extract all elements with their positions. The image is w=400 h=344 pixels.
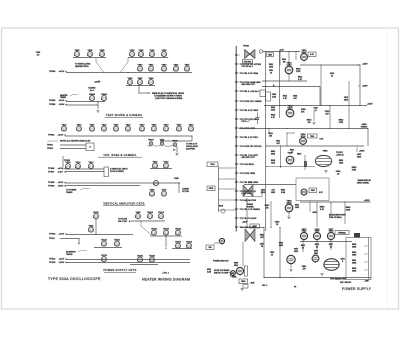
svg-text:4: 4 [135, 217, 136, 219]
svg-text:4: 4 [101, 245, 102, 247]
svg-text:TP911: TP911 [49, 238, 56, 240]
svg-text:4: 4 [149, 195, 150, 197]
svg-text:-150V: -150V [58, 186, 64, 188]
svg-text:FIG. 2: FIG. 2 [262, 285, 267, 287]
svg-text:TO HTRS OF CRT BD: TO HTRS OF CRT BD [240, 146, 262, 148]
svg-text:4: 4 [153, 184, 154, 186]
svg-text:(THE TWO CHASSIS A WIRE): (THE TWO CHASSIS A WIRE) [155, 97, 183, 100]
svg-text:THERMAL: THERMAL [338, 231, 346, 234]
svg-text:L802: L802 [268, 55, 272, 57]
svg-text:PWR: PWR [209, 188, 214, 190]
svg-text:4: 4 [93, 217, 94, 219]
svg-text:TEST SCOPE & CAMERA: TEST SCOPE & CAMERA [106, 113, 142, 117]
svg-text:HTR WDG: HTR WDG [244, 61, 252, 63]
svg-text:R815: R815 [261, 192, 265, 194]
svg-text:4: 4 [184, 70, 185, 72]
svg-text:+225V: +225V [362, 64, 368, 66]
svg-text:T801: T801 [310, 136, 314, 138]
svg-text:T601: T601 [248, 182, 252, 184]
svg-text:TP907: TP907 [48, 172, 55, 174]
svg-text:4: 4 [175, 234, 176, 236]
svg-text:+150V: +150V [367, 104, 373, 106]
svg-text:TP909: TP909 [48, 186, 55, 188]
svg-text:4: 4 [163, 234, 164, 236]
svg-text:TP912: TP912 [49, 259, 56, 261]
svg-text:ARE DC TO GND: ARE DC TO GND [214, 271, 229, 274]
svg-text:POWER SUPPLY CKTS: POWER SUPPLY CKTS [103, 268, 136, 272]
svg-text:+165V: +165V [362, 86, 368, 88]
svg-text:CRT, BASE & CAMERA: CRT, BASE & CAMERA [103, 153, 136, 157]
svg-text:4: 4 [74, 55, 75, 57]
svg-text:8: 8 [342, 261, 343, 263]
svg-text:.01: .01 [271, 254, 274, 256]
svg-text:4: 4 [125, 130, 126, 132]
svg-text:T802: T802 [311, 190, 315, 192]
svg-text:TP902: TP902 [47, 148, 54, 150]
svg-text:TP906: TP906 [48, 168, 55, 170]
svg-text:2.2M: 2.2M [207, 271, 211, 273]
svg-text:470: 470 [303, 268, 306, 270]
svg-text:220K: 220K [346, 209, 351, 211]
svg-text:CKT BD No 1: CKT BD No 1 [242, 66, 253, 68]
svg-text:TP910: TP910 [49, 234, 56, 236]
svg-text:4: 4 [148, 70, 149, 72]
svg-text:.047: .047 [293, 98, 297, 100]
svg-text:2X40: 2X40 [357, 156, 361, 158]
svg-text:FIG 3 JRB BY: FIG 3 JRB BY [340, 282, 352, 284]
svg-text:SW: SW [208, 247, 211, 249]
svg-text:4: 4 [101, 99, 102, 101]
svg-text:4: 4 [149, 261, 150, 263]
svg-text:POWER GND LUG: POWER GND LUG [213, 261, 229, 263]
svg-text:+ R89: + R89 [250, 283, 255, 285]
svg-text:TP901: TP901 [47, 145, 54, 147]
svg-text:V6017: V6017 [148, 140, 153, 142]
svg-text:+6.3V: +6.3V [59, 100, 65, 102]
svg-text:R890: R890 [241, 281, 245, 283]
svg-text:6.3: 6.3 [37, 54, 40, 56]
svg-text:+165V: +165V [359, 151, 365, 153]
svg-text:4: 4 [113, 130, 114, 132]
svg-text:4: 4 [137, 70, 138, 72]
svg-text:TRANS: TRANS [66, 191, 73, 194]
svg-text:TO FAN MOTOR: TO FAN MOTOR [240, 199, 257, 202]
svg-text:-150V: -150V [59, 262, 65, 264]
svg-text:T601: T601 [210, 164, 214, 166]
svg-text:TO PIN 4 OF V834: TO PIN 4 OF V834 [240, 73, 259, 75]
svg-text:2X20: 2X20 [344, 99, 348, 101]
svg-text:4: 4 [101, 260, 102, 262]
svg-text:V6063: V6063 [172, 141, 177, 143]
svg-text:4: 4 [138, 55, 139, 57]
svg-text:1M: 1M [308, 122, 311, 124]
svg-text:4: 4 [151, 234, 152, 236]
svg-text:4: 4 [163, 130, 164, 132]
svg-text:.01: .01 [270, 72, 273, 74]
svg-text:PINS OF REG.): PINS OF REG.) [329, 217, 342, 219]
svg-text:ADAPTER: ADAPTER [186, 147, 196, 150]
svg-text:TP908: TP908 [48, 182, 55, 184]
svg-text:4: 4 [173, 70, 174, 72]
svg-text:4: 4 [176, 130, 177, 132]
svg-text:TYPE 533A OSCILLOSCOPE: TYPE 533A OSCILLOSCOPE [48, 277, 101, 281]
svg-text:+100V: +100V [242, 222, 248, 224]
svg-text:4: 4 [89, 99, 90, 101]
svg-text:TO PIN 1 OF SW601: TO PIN 1 OF SW601 [240, 209, 261, 211]
svg-text:470K: 470K [352, 169, 357, 171]
svg-text:TP806: TP806 [49, 71, 56, 73]
svg-text:4: 4 [61, 130, 62, 132]
svg-text:4: 4 [161, 195, 162, 197]
svg-text:4: 4 [76, 130, 77, 132]
svg-text:TP904: TP904 [48, 135, 55, 137]
svg-text:.01: .01 [314, 110, 317, 112]
svg-text:B601: B601 [219, 206, 223, 208]
svg-text:PIN 2 + 7: PIN 2 + 7 [242, 121, 250, 123]
svg-text:+6.3V: +6.3V [58, 182, 64, 184]
svg-text:.047: .047 [276, 143, 280, 145]
svg-text:V618: V618 [160, 140, 164, 142]
svg-text:.047: .047 [325, 113, 329, 115]
svg-text:4: 4 [101, 130, 102, 132]
svg-text:TP804: TP804 [49, 100, 56, 102]
svg-text:.01: .01 [337, 173, 340, 175]
svg-text:TO 6.3V WDG: TO 6.3V WDG [240, 164, 254, 166]
svg-text:TO PILOT LIGHT: TO PILOT LIGHT [240, 218, 257, 220]
svg-text:4: 4 [114, 245, 115, 247]
svg-text:TO PIN 4 OF V863: TO PIN 4 OF V863 [240, 110, 259, 112]
svg-text:TO HTRS OF LOWER: TO HTRS OF LOWER [240, 101, 262, 103]
svg-text:4: 4 [161, 70, 162, 72]
svg-text:4: 4 [89, 130, 90, 132]
svg-text:R844: R844 [297, 154, 301, 156]
svg-text:4: 4 [88, 231, 89, 233]
svg-text:+6.3V: +6.3V [59, 259, 65, 261]
svg-text:5651: 5651 [234, 265, 238, 267]
svg-text:PLUG IN UNITS: PLUG IN UNITS [110, 171, 125, 173]
svg-text:4: 4 [149, 55, 150, 57]
svg-text:4: 4 [158, 217, 159, 219]
svg-text:4: 4 [137, 261, 138, 263]
svg-text:TO PIN 4 + BD No 1: TO PIN 4 + BD No 1 [240, 91, 260, 93]
svg-text:AND V872 CKT: AND V872 CKT [242, 156, 256, 159]
svg-text:+6.3V: +6.3V [59, 71, 65, 73]
svg-text:4: 4 [148, 83, 149, 85]
svg-text:.01: .01 [331, 75, 334, 77]
svg-text:4: 4 [137, 83, 138, 85]
svg-text:P1: P1 [294, 287, 296, 289]
svg-text:+6.3V: +6.3V [58, 135, 64, 137]
svg-text:4: 4 [147, 217, 148, 219]
svg-text:+150V DC: +150V DC [336, 154, 345, 156]
svg-text:2x20: 2x20 [272, 96, 276, 98]
svg-text:4: 4 [139, 130, 140, 132]
svg-text:270K: 270K [339, 122, 344, 124]
svg-text:270K: 270K [296, 71, 301, 73]
svg-text:POWER SUPPLY: POWER SUPPLY [342, 287, 372, 291]
svg-text:4: 4 [99, 55, 100, 57]
svg-text:-6.3V: -6.3V [58, 172, 64, 174]
svg-text:TP940: TP940 [243, 45, 250, 47]
svg-text:TYPE RM533A PWR: TYPE RM533A PWR [330, 278, 347, 281]
svg-text:4: 4 [161, 55, 162, 57]
svg-text:VERTICAL AMPLIFIER CKTS: VERTICAL AMPLIFIER CKTS [103, 201, 144, 205]
svg-text:+ FIG. 1: + FIG. 1 [162, 273, 169, 275]
svg-text:ZERO SIGNAL: ZERO SIGNAL [357, 181, 369, 184]
svg-text:4: 4 [127, 83, 128, 85]
svg-text:TRACE: TRACE [66, 253, 73, 256]
svg-text:AND V853 CKT: AND V853 CKT [242, 83, 256, 86]
svg-text:HEATER WIRING DIAGRAM: HEATER WIRING DIAGRAM [142, 278, 190, 282]
svg-text:4: 4 [87, 55, 88, 57]
svg-text:25: 25 [276, 224, 278, 226]
svg-text:CKT BD: CKT BD [182, 191, 190, 193]
svg-text:HEATER WDG.: HEATER WDG. [75, 65, 89, 68]
svg-text:2X40: 2X40 [339, 162, 343, 164]
svg-text:4: 4 [188, 130, 189, 132]
svg-text:4: 4 [129, 55, 130, 57]
svg-text:4: 4 [151, 130, 152, 132]
svg-text:UNREG: UNREG [361, 126, 368, 128]
svg-text:TP913: TP913 [49, 262, 56, 264]
svg-text:+6.3V: +6.3V [59, 234, 65, 236]
svg-text:C?: C? [173, 150, 175, 152]
svg-text:TO PIN 2 OF T801: TO PIN 2 OF T801 [240, 137, 259, 139]
svg-text:25: 25 [261, 246, 263, 248]
svg-text:NOTE: ALL HEATER LEADS 6.3V: NOTE: ALL HEATER LEADS 6.3V [60, 140, 91, 143]
svg-text:TIMER: TIMER [60, 97, 67, 99]
svg-text:3.3M: 3.3M [281, 192, 285, 194]
svg-text:TO HTRS V882: TO HTRS V882 [240, 173, 256, 175]
svg-text:-150V: -150V [59, 104, 65, 106]
svg-text:PIN 2 CRT: PIN 2 CRT [118, 221, 128, 223]
svg-text:+325V: +325V [364, 200, 370, 202]
svg-text:TP805: TP805 [49, 104, 56, 106]
svg-text:POWER: POWER [246, 206, 254, 208]
